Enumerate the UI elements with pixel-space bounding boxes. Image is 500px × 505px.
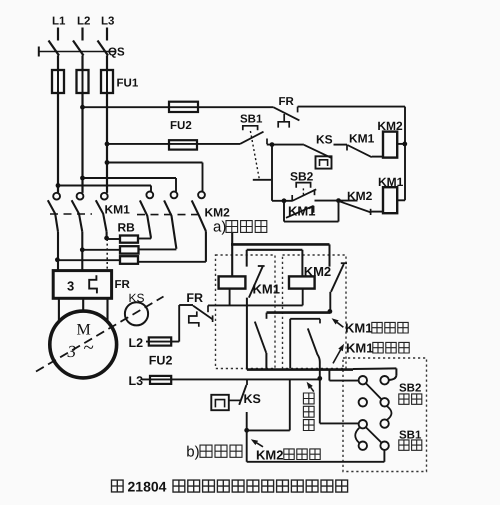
svg-text:KM2: KM2 xyxy=(256,448,283,463)
svg-text:FR: FR xyxy=(186,291,203,305)
svg-text:L3: L3 xyxy=(129,374,144,388)
svg-text:SB2: SB2 xyxy=(399,383,421,395)
svg-text:b): b) xyxy=(186,444,199,461)
svg-text:KS: KS xyxy=(316,133,333,147)
svg-text:FU1: FU1 xyxy=(117,78,139,90)
svg-text:M: M xyxy=(77,322,91,339)
svg-text:KM1: KM1 xyxy=(288,204,315,219)
svg-text:SB2: SB2 xyxy=(290,170,314,184)
svg-text:KM2: KM2 xyxy=(347,189,373,203)
svg-text:KM1: KM1 xyxy=(105,203,131,217)
svg-text:L2: L2 xyxy=(77,16,90,28)
svg-text:3: 3 xyxy=(67,279,74,294)
svg-text:FU2: FU2 xyxy=(149,354,173,368)
svg-text:FR: FR xyxy=(115,279,131,291)
svg-text:FU2: FU2 xyxy=(170,120,192,132)
svg-text:SB1: SB1 xyxy=(240,113,263,125)
svg-text:a): a) xyxy=(213,219,226,236)
svg-text:QS: QS xyxy=(108,47,125,59)
svg-text:FR: FR xyxy=(279,96,295,108)
svg-text:L3: L3 xyxy=(101,16,114,28)
svg-text:L2: L2 xyxy=(129,336,144,350)
svg-text:3: 3 xyxy=(67,342,77,361)
svg-text:21804: 21804 xyxy=(128,479,167,495)
svg-text:KM1: KM1 xyxy=(253,282,280,297)
svg-text:KM2: KM2 xyxy=(205,206,231,220)
svg-text:KM1: KM1 xyxy=(349,132,375,146)
svg-text:KM1: KM1 xyxy=(346,341,373,356)
svg-text:RB: RB xyxy=(118,221,136,235)
svg-text:KS: KS xyxy=(244,392,261,406)
svg-text:KM1: KM1 xyxy=(345,321,372,336)
svg-text:KM2: KM2 xyxy=(377,119,403,133)
svg-text:KS: KS xyxy=(129,291,145,305)
svg-text:L1: L1 xyxy=(52,16,66,28)
svg-text:KM1: KM1 xyxy=(378,175,404,189)
